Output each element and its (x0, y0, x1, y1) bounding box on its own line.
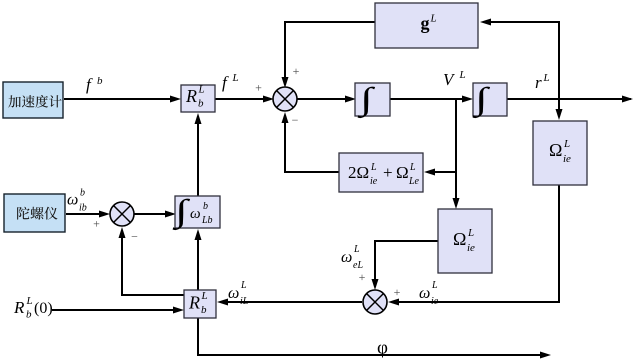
wire integrator1 to integrator2 V_L (390, 98, 468, 100)
wire sum1 to integrator1 (297, 98, 351, 100)
svg-text:L: L (409, 162, 416, 173)
wire gyro to sum2 (66, 213, 105, 215)
svg-text:−: − (292, 113, 299, 127)
svg-text:2Ω: 2Ω (348, 163, 369, 182)
svg-text:ω: ω (341, 249, 352, 266)
svg-text:V: V (443, 70, 456, 89)
svg-text:+: + (383, 163, 393, 182)
svg-text:b: b (26, 309, 32, 321)
svg-text:L: L (431, 280, 438, 291)
svg-text:b: b (203, 201, 208, 212)
svg-text:f: f (86, 75, 93, 94)
wire r_L branch up to g input (483, 22, 559, 99)
svg-text:b: b (201, 304, 207, 316)
svg-text:+: + (255, 81, 262, 95)
svg-text:b: b (80, 188, 85, 199)
wire Rb initial condition input (52, 309, 179, 311)
svg-text:ie: ie (563, 153, 571, 165)
label integral 1 (357, 81, 376, 119)
svg-text:L: L (232, 72, 239, 84)
svg-text:ie: ie (370, 176, 378, 187)
block integrator 1 (355, 83, 390, 116)
wire Rb2 feedback to sum2 bottom (122, 231, 184, 295)
wire Rb2 up to integrator omega (197, 233, 199, 290)
svg-text:L: L (240, 280, 247, 291)
svg-text:(0): (0) (34, 300, 53, 317)
svg-text:R: R (185, 86, 197, 106)
wire r_L branch down to Omega right (558, 99, 560, 116)
label integral omega_Lb^b (172, 193, 191, 231)
svg-text:r: r (535, 73, 542, 92)
label gyroscope text (17, 207, 57, 220)
svg-text:L: L (563, 138, 570, 150)
block Rb1 attitude matrix top (181, 85, 215, 112)
svg-text:∫: ∫ (172, 193, 191, 231)
svg-text:L: L (26, 295, 33, 307)
svg-text:L: L (370, 162, 377, 173)
wire integrator omega up to Rb1 (197, 117, 199, 196)
summing junction sum3 omega_iL (363, 290, 387, 314)
wire Rb2 down to phi output (198, 318, 548, 355)
svg-text:L: L (459, 69, 466, 81)
svg-text:f: f (222, 73, 229, 92)
svg-text:iL: iL (240, 296, 249, 307)
svg-text:+: + (93, 217, 100, 231)
block accelerometer (3, 82, 63, 118)
svg-text:−: − (131, 230, 138, 244)
svg-text:∫: ∫ (472, 81, 491, 119)
wire sum2 to integrator omega (134, 213, 171, 215)
svg-text:Ω: Ω (453, 229, 466, 249)
wire Rb1 to sum1 f_L (215, 98, 269, 100)
label accelerometer text (8, 95, 61, 108)
wire branch to coriolis box (428, 171, 456, 173)
summing junction sum2 body rate (110, 202, 134, 226)
wire g feedback to sum1 top (285, 22, 375, 83)
svg-text:Ω: Ω (549, 140, 562, 160)
block Omega_ie center (438, 209, 492, 273)
svg-text:b: b (198, 98, 204, 110)
svg-text:ω: ω (419, 285, 430, 302)
svg-text:L: L (467, 227, 474, 239)
svg-text:L: L (430, 13, 437, 25)
summing junction sum1 specific force (273, 87, 297, 111)
wire sum3 output omega_iL to Rb2 (221, 301, 362, 303)
svg-text:b: b (97, 75, 103, 87)
wire acc to Rb1 (64, 98, 176, 100)
svg-text:Ω: Ω (396, 163, 409, 182)
block gravity gL (375, 3, 478, 48)
svg-text:Le: Le (408, 176, 420, 187)
svg-text:ie: ie (467, 242, 475, 254)
label integral 2 (472, 81, 491, 119)
svg-text:+: + (394, 285, 401, 299)
wire Omega right output omega_ie to sum3 (392, 184, 559, 302)
svg-text:+: + (293, 64, 300, 78)
svg-text:ie: ie (431, 296, 439, 307)
svg-text:φ: φ (377, 338, 388, 359)
block coriolis 2Omega_ie+Omega_Le (339, 153, 423, 192)
svg-text:Lb: Lb (201, 215, 213, 226)
svg-text:∫: ∫ (357, 81, 376, 119)
svg-text:L: L (353, 244, 360, 255)
svg-text:R: R (13, 298, 25, 317)
block Rb2 attitude matrix bottom (184, 290, 216, 318)
block integrator 2 (473, 83, 507, 116)
block gyroscope (4, 194, 65, 232)
block integrator omega_Lb (175, 196, 220, 228)
wire integrator2 output r_L (507, 98, 631, 100)
svg-text:ω: ω (67, 192, 78, 209)
svg-text:R: R (188, 293, 200, 313)
wire coriolis feedback to sum1 bottom (285, 116, 339, 172)
wire Omega center output omega_eL to sum3 (375, 241, 438, 285)
svg-text:ib: ib (79, 203, 87, 214)
block Omega_ie right (533, 121, 587, 185)
svg-text:L: L (198, 84, 205, 96)
svg-text:L: L (201, 290, 208, 302)
svg-text:+: + (359, 270, 366, 284)
svg-text:L: L (543, 72, 550, 84)
wire V_L branch down (455, 99, 457, 204)
svg-text:g: g (421, 13, 430, 33)
svg-text:ω: ω (228, 285, 239, 302)
svg-text:ω: ω (190, 206, 201, 222)
